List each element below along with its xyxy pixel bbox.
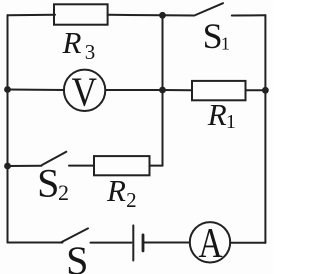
svg-text:1: 1 <box>226 111 236 133</box>
wire top: left corner to R3 <box>8 14 56 17</box>
node left-S2 junction dot <box>4 163 11 170</box>
battery BT1 short plate <box>142 235 145 251</box>
wire bottom horizontal left segment <box>8 242 63 244</box>
svg-text:2: 2 <box>58 180 69 205</box>
svg-text:S: S <box>66 238 88 274</box>
switch S2 wire from left node <box>8 165 42 167</box>
svg-text:V: V <box>72 69 98 115</box>
wire left node to voltmeter <box>8 89 65 92</box>
node left-voltmeter junction dot <box>4 86 11 93</box>
node B junction dot <box>159 87 166 94</box>
wire R2 to middle vertical <box>150 165 163 167</box>
resistor R2 <box>94 156 150 175</box>
switch S1 lever <box>196 3 224 15</box>
svg-text:R: R <box>106 173 126 208</box>
switch S lever <box>61 228 88 242</box>
wire battery to ammeter <box>145 242 190 244</box>
wire R3 to node A <box>108 14 163 17</box>
wire voltmeter to node B <box>105 89 162 91</box>
wire S contact to battery <box>91 242 132 244</box>
resistor R1 <box>192 81 246 100</box>
switch S2 lever <box>42 152 66 165</box>
node right-R1 junction dot <box>262 87 269 94</box>
wire S2 contact to R2 <box>69 165 94 167</box>
wire right vertical <box>264 15 266 242</box>
wire middle vertical <box>162 15 164 165</box>
ammeter U2 circle <box>190 222 230 262</box>
battery BT1 long plate <box>132 225 134 260</box>
wire left vertical <box>7 15 9 242</box>
node A junction dot <box>159 12 166 19</box>
resistor R3 <box>54 4 108 24</box>
svg-text:S: S <box>37 160 59 205</box>
svg-text:1: 1 <box>221 33 230 53</box>
wire node A to switch S1 pivot <box>163 14 195 16</box>
svg-text:A: A <box>199 221 224 267</box>
svg-text:3: 3 <box>85 40 96 64</box>
voltmeter U1 circle <box>64 70 105 111</box>
svg-text:S: S <box>203 16 223 56</box>
wire node B to R1 <box>163 89 193 91</box>
wire ammeter to bottom-right corner <box>230 242 265 244</box>
svg-text:R: R <box>62 25 82 60</box>
wire S1 contact to top-right corner <box>232 14 266 16</box>
svg-text:2: 2 <box>126 188 137 212</box>
svg-text:R: R <box>207 97 227 132</box>
wire R1 to right node <box>246 89 266 91</box>
